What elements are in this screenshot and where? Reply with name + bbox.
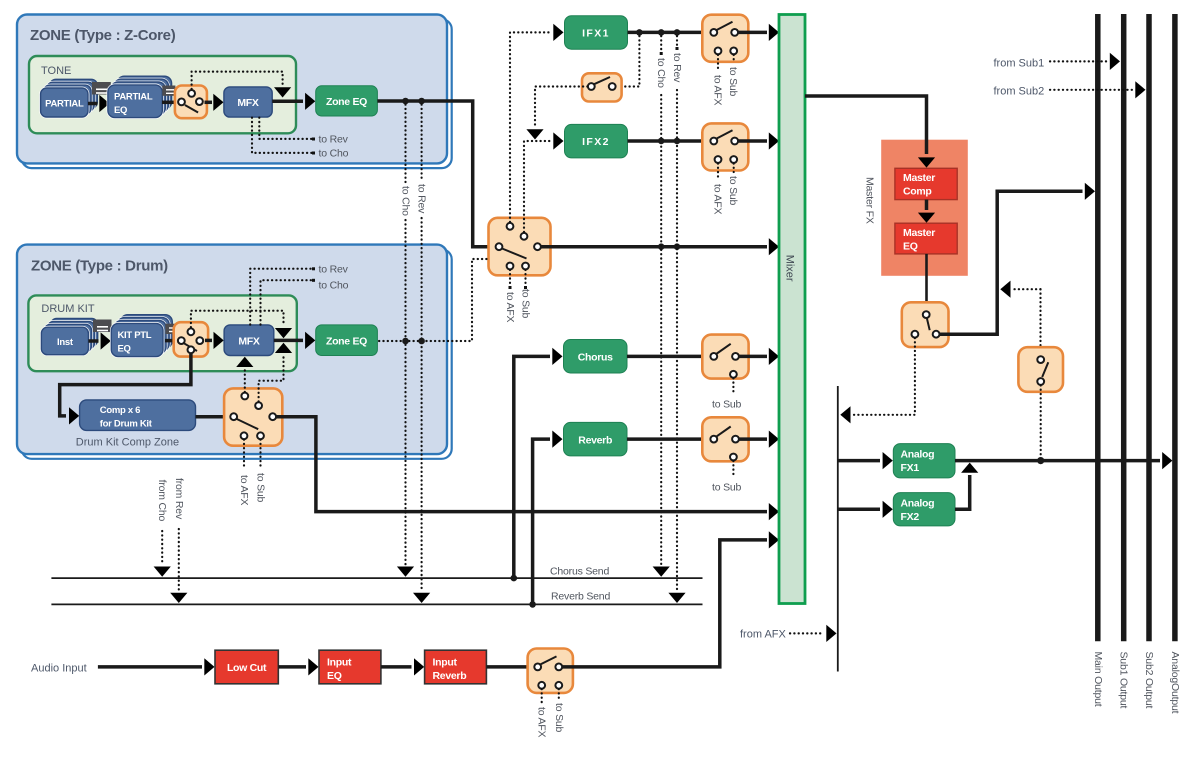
svg-text:to Cho: to Cho xyxy=(655,58,667,88)
wire Chorus to switch S8 xyxy=(627,355,711,359)
block MFX (Drum) xyxy=(224,325,274,356)
group box DRUM KIT xyxy=(28,295,296,371)
svg-text:EQ: EQ xyxy=(114,105,127,116)
block Input EQ xyxy=(319,650,381,684)
dotted S2 to AFX xyxy=(504,270,516,323)
bus AFX vertical xyxy=(837,386,839,672)
dotted from Rev to Reverb Send xyxy=(170,529,187,603)
svg-text:Low Cut: Low Cut xyxy=(227,662,267,674)
dotted S7 to Sub xyxy=(255,440,267,503)
dotted column to Cho (x=405.5) xyxy=(397,105,414,577)
svg-text:from Cho: from Cho xyxy=(156,480,168,522)
svg-text:Reverb: Reverb xyxy=(433,670,467,682)
dotted column to Cho from IFX (x=661.2) xyxy=(653,36,670,577)
dotted from AFX into bus xyxy=(790,625,837,642)
bus Chorus Send xyxy=(51,566,702,579)
wire Input Reverb to switch S10 xyxy=(486,665,535,669)
wire bundle PARTIAL to PARTIAL EQ xyxy=(88,82,111,112)
junction node IFX2 out (to Rev) xyxy=(674,138,681,145)
dotted column to Rev (x=421.6) xyxy=(413,105,430,604)
dotted IFX1 loop down to small switch S3 xyxy=(617,36,640,87)
wire Audio Input to Low Cut xyxy=(98,658,215,675)
wire S5 to Mixer xyxy=(738,132,779,149)
group box Master FX xyxy=(864,140,968,276)
dotted S5 to Sub xyxy=(727,163,739,205)
svg-text:from Rev: from Rev xyxy=(173,478,185,520)
wire S1 to MFX xyxy=(205,94,224,111)
dotted from Sub1 into Sub1 Output xyxy=(1050,53,1120,70)
dotted S10 to Sub xyxy=(553,689,565,733)
switch S11 master output xyxy=(902,302,949,347)
svg-text:PARTIAL: PARTIAL xyxy=(114,92,153,103)
svg-text:Master FX: Master FX xyxy=(864,177,876,224)
wire S7 to Mixer xyxy=(276,417,779,521)
group box TONE xyxy=(29,56,296,133)
wire Zone EQ output to switch S2 xyxy=(377,101,496,247)
junction node Reverb Send feed xyxy=(529,601,536,608)
svg-text:to Sub: to Sub xyxy=(712,482,742,494)
zone box ZONE (Type : Drum) xyxy=(17,245,452,459)
svg-text:Reverb: Reverb xyxy=(578,435,612,447)
dotted S9 to Sub xyxy=(712,461,742,494)
mixer bar xyxy=(779,15,805,604)
junction node Chorus Send feed xyxy=(511,575,518,582)
svg-text:to AFX: to AFX xyxy=(504,292,516,323)
svg-text:Comp x 6: Comp x 6 xyxy=(100,405,140,416)
block IFX2 xyxy=(565,124,628,157)
switch S9 reverb output xyxy=(702,417,748,461)
svg-text:to AFX: to AFX xyxy=(712,184,724,215)
wire IFX2 to switch S5 xyxy=(628,139,712,143)
wire Chorus Send to Chorus xyxy=(514,348,563,578)
dotted from Cho to Chorus Send xyxy=(154,531,171,577)
svg-text:to Cho: to Cho xyxy=(319,148,349,160)
switch S5 IFX2 output xyxy=(702,123,748,170)
dotted S11 to AFX bus xyxy=(840,338,915,424)
svg-text:Chorus Send: Chorus Send xyxy=(550,566,609,578)
svg-text:for Drum Kit: for Drum Kit xyxy=(100,419,153,430)
svg-text:to Sub: to Sub xyxy=(727,67,739,97)
svg-text:Sub2 Output: Sub2 Output xyxy=(1143,652,1155,709)
svg-text:PARTIAL: PARTIAL xyxy=(45,99,84,110)
wire S9 to Mixer xyxy=(739,431,779,448)
junction node on S2-Mixer wire (to Rev column) xyxy=(674,243,681,250)
dotted MFX to Cho xyxy=(252,118,349,160)
svg-text:to Sub: to Sub xyxy=(553,703,565,733)
svg-text:EQ: EQ xyxy=(903,241,918,253)
svg-text:FX2: FX2 xyxy=(901,511,920,523)
junction node on S2-Mixer wire (to Cho column) xyxy=(658,243,665,250)
block Zone EQ (Z-Core) xyxy=(316,86,378,116)
svg-text:TONE: TONE xyxy=(41,65,71,77)
svg-text:MFX: MFX xyxy=(237,97,259,109)
dotted S2 to Sub xyxy=(520,270,532,319)
wire Mixer to Master FX xyxy=(805,96,935,168)
junction node on Zone EQ output (to Rev) xyxy=(418,98,425,105)
dotted drum zone feed into S2 xyxy=(379,259,487,341)
bus Sub1 Output xyxy=(1118,14,1130,709)
svg-text:to Rev: to Rev xyxy=(319,264,349,276)
dotted S4 to Sub xyxy=(727,55,739,97)
svg-text:to Cho: to Cho xyxy=(400,186,412,216)
svg-text:Sub1 Output: Sub1 Output xyxy=(1118,652,1130,709)
wire Reverb to switch S9 xyxy=(627,437,711,441)
bus Main Output xyxy=(1092,14,1104,707)
switch S4 IFX1 output xyxy=(702,15,748,62)
svg-text:Drum Kit Comp Zone: Drum Kit Comp Zone xyxy=(76,437,179,449)
block MFX (Z-Core) xyxy=(224,87,272,117)
wire bundle PARTIAL EQ to switch xyxy=(162,86,177,103)
dotted S4 to AFX xyxy=(712,55,724,106)
wire Analog FX1 to Analog Output xyxy=(955,452,1172,469)
switch S1 tone output xyxy=(175,86,207,119)
svg-text:to Rev: to Rev xyxy=(319,134,349,146)
dotted S12 feed from main wire xyxy=(1000,281,1040,355)
switch S7 comp zone router xyxy=(224,388,282,445)
dotted from Sub2 into Sub2 Output xyxy=(1050,81,1146,98)
wire Master EQ to switch S11 xyxy=(925,254,928,311)
bus Reverb Send xyxy=(51,591,702,605)
svg-text:Zone EQ: Zone EQ xyxy=(326,96,367,108)
dotted S7 to AFX xyxy=(238,440,250,506)
dotted column to Rev from IFX (x=677) xyxy=(668,36,685,603)
wire Analog FX2 into FX1 wire xyxy=(955,463,978,510)
wire bundle Inst to KIT PTL EQ xyxy=(88,320,111,350)
svg-text:MFX: MFX xyxy=(238,336,260,348)
svg-text:Master: Master xyxy=(903,227,935,239)
svg-text:Input: Input xyxy=(327,657,352,669)
svg-text:to Rev: to Rev xyxy=(671,53,683,83)
svg-text:to Rev: to Rev xyxy=(416,184,428,214)
junction node IFX1 out (to Cho) xyxy=(658,29,665,36)
dotted S7 return into MFX output wire xyxy=(259,357,284,402)
block Analog FX1 xyxy=(893,444,955,478)
switch S8 chorus output xyxy=(702,335,748,379)
svg-text:Mixer: Mixer xyxy=(783,255,795,282)
block IFX1 xyxy=(565,16,628,50)
dotted S8 to Sub xyxy=(712,378,742,410)
wire Reverb Send to Reverb xyxy=(533,431,563,605)
dotted S10 to AFX xyxy=(536,689,548,738)
svg-text:FX1: FX1 xyxy=(901,462,920,474)
svg-text:to Sub: to Sub xyxy=(727,176,739,206)
dotted bypass S1 over MFX xyxy=(192,72,292,98)
svg-text:Analog: Analog xyxy=(901,498,935,510)
svg-text:Analog: Analog xyxy=(901,449,935,461)
svg-text:Reverb Send: Reverb Send xyxy=(551,591,610,603)
svg-text:DRUM KIT: DRUM KIT xyxy=(41,303,94,315)
block Inst (stacked) xyxy=(41,319,97,355)
wire AFX bus to Analog FX2 xyxy=(838,501,893,518)
svg-text:to AFX: to AFX xyxy=(712,75,724,106)
svg-text:to Cho: to Cho xyxy=(319,280,349,292)
svg-text:Zone EQ: Zone EQ xyxy=(326,336,367,348)
svg-text:from AFX: from AFX xyxy=(740,629,787,641)
block Zone EQ (Drum) xyxy=(316,325,378,356)
wire S11 to Main Output xyxy=(940,183,1096,335)
svg-text:Main Output: Main Output xyxy=(1092,652,1104,707)
arrow comp return up into MFX wire xyxy=(275,343,292,353)
block Chorus xyxy=(564,340,628,374)
junction node drum EQ dotted (to Rev) xyxy=(418,338,425,345)
svg-text:Chorus: Chorus xyxy=(578,352,613,364)
wire S4 to Mixer xyxy=(738,24,779,41)
wire AFX bus to Analog FX1 xyxy=(838,452,893,469)
block PARTIAL EQ (stacked) xyxy=(108,76,172,117)
svg-text:AnalogOutput: AnalogOutput xyxy=(1169,652,1181,714)
junction node IFX2 out (to Cho) xyxy=(658,138,665,145)
dotted bypass S6 over MFX xyxy=(191,311,292,339)
wire Comp to switch S7 xyxy=(196,415,232,419)
wire S6 to Comp x 6 xyxy=(60,354,191,425)
svg-text:EQ: EQ xyxy=(118,344,131,355)
wire MFX drum to Zone EQ drum xyxy=(274,332,316,349)
wire S8 to Mixer xyxy=(739,348,779,365)
dotted MFX drum to Rev xyxy=(250,264,348,325)
dotted MFX drum to Cho xyxy=(261,279,349,325)
wire MFX to Zone EQ xyxy=(272,93,315,110)
switch S10 audio input router xyxy=(528,649,573,693)
junction node on Analog FX1 wire xyxy=(1037,457,1044,464)
dotted S2 to IFX1 xyxy=(510,24,564,222)
svg-text:Master: Master xyxy=(903,172,935,184)
block Low Cut xyxy=(215,650,278,684)
block Master EQ xyxy=(895,223,957,254)
block Analog FX2 xyxy=(893,493,955,526)
switch S6 drum kit output xyxy=(174,322,208,356)
wire Low Cut to Input EQ xyxy=(278,658,318,675)
block Comp x 6 for Drum Kit xyxy=(80,400,196,431)
wire S6 to MFX drum xyxy=(205,332,224,349)
wire S2 to Mixer xyxy=(541,238,779,255)
svg-text:from Sub1: from Sub1 xyxy=(994,58,1045,70)
svg-text:Inst: Inst xyxy=(57,337,74,348)
block Reverb xyxy=(564,422,628,456)
switch S3 IFX chain xyxy=(582,73,622,101)
svg-text:to AFX: to AFX xyxy=(536,707,548,738)
svg-text:to Sub: to Sub xyxy=(520,289,532,319)
svg-text:ZONE (Type : Z-Core): ZONE (Type : Z-Core) xyxy=(30,27,176,44)
block PARTIAL (stacked) xyxy=(41,79,98,117)
junction node IFX1 out (loop to small switch) xyxy=(636,29,643,36)
svg-text:KIT PTL: KIT PTL xyxy=(118,330,152,341)
svg-text:Comp: Comp xyxy=(903,186,932,198)
block Input Reverb xyxy=(425,650,487,684)
wire Master Comp to Master EQ xyxy=(918,200,935,223)
junction node drum EQ dotted (to Cho) xyxy=(402,338,409,345)
wire Input EQ to Input Reverb xyxy=(381,658,424,675)
dotted S2 to IFX2 xyxy=(524,132,564,232)
wire S10 to Mixer xyxy=(562,531,779,667)
switch S12 analog output select xyxy=(1018,347,1063,392)
bus AnalogOutput xyxy=(1169,14,1181,714)
svg-text:to Sub: to Sub xyxy=(255,473,267,503)
block KIT PTL EQ (stacked) xyxy=(111,315,172,357)
dotted S7 return into MFX drum xyxy=(236,357,253,392)
svg-text:from Sub2: from Sub2 xyxy=(994,86,1045,98)
svg-text:Audio Input: Audio Input xyxy=(31,663,87,675)
svg-text:ZONE (Type : Drum): ZONE (Type : Drum) xyxy=(31,258,168,275)
svg-text:EQ: EQ xyxy=(327,670,342,682)
svg-text:to AFX: to AFX xyxy=(238,475,250,506)
dotted S5 to AFX xyxy=(712,163,724,214)
wire bundle KIT PTL EQ to switch S6 xyxy=(165,324,178,341)
junction node IFX1 out (to Rev) xyxy=(674,29,681,36)
svg-text:Input: Input xyxy=(433,657,458,669)
switch S2 main zone router xyxy=(489,218,551,275)
svg-text:IFX1: IFX1 xyxy=(582,28,610,40)
svg-text:IFX2: IFX2 xyxy=(582,136,610,148)
dotted S3 to IFX2 input xyxy=(526,87,587,140)
dotted S12 to Analog FX1 wire xyxy=(1040,385,1042,457)
svg-text:to Sub: to Sub xyxy=(712,399,742,411)
block Master Comp xyxy=(895,168,957,199)
dotted MFX to Rev xyxy=(259,118,348,146)
junction node on Zone EQ output (to Cho) xyxy=(402,98,409,105)
bus Sub2 Output xyxy=(1143,14,1155,709)
wire IFX1 to switch S4 xyxy=(628,31,712,35)
zone box ZONE (Type : Z-Core) xyxy=(17,15,452,169)
